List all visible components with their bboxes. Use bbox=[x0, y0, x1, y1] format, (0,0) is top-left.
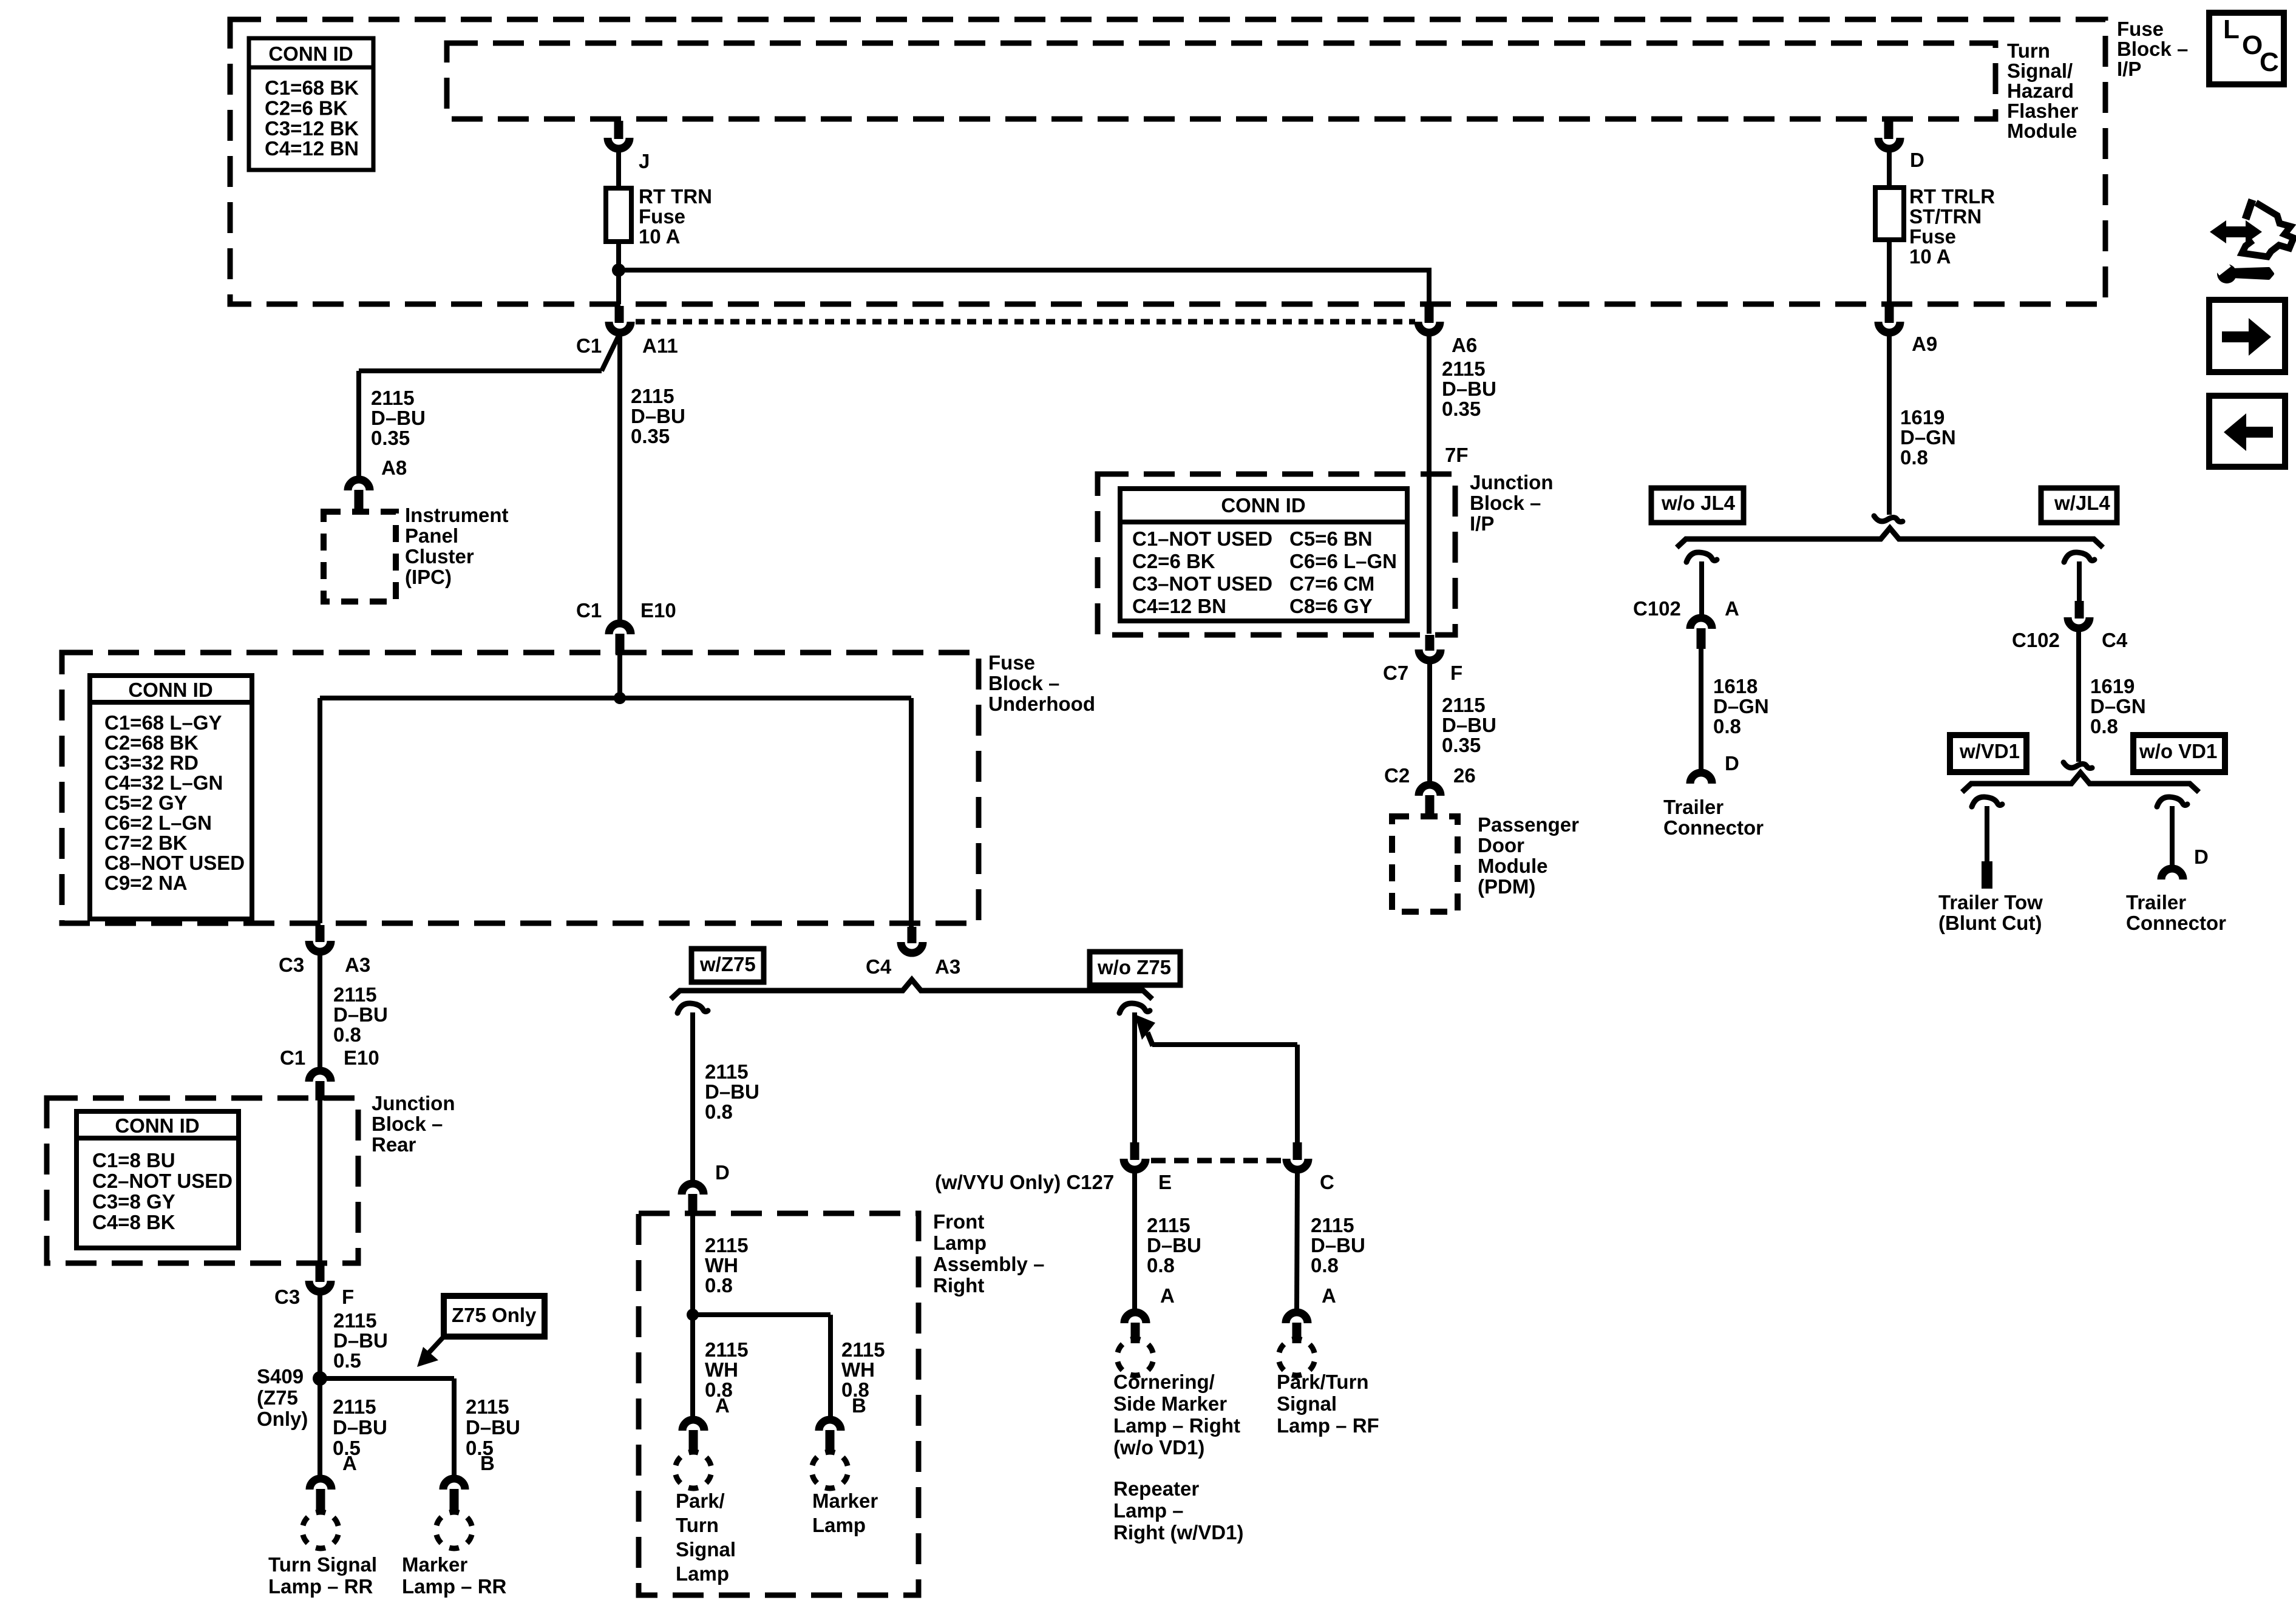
connector C1/E10 at junction block rear bbox=[309, 1071, 331, 1100]
splice S409 bbox=[257, 1365, 327, 1430]
svg-text:B: B bbox=[852, 1394, 866, 1417]
connector A turn signal lamp RR bbox=[310, 1479, 331, 1511]
passenger door module dashed box bbox=[1392, 816, 1458, 912]
svg-text:(Z75: (Z75 bbox=[257, 1386, 298, 1409]
marker lamp bbox=[812, 1452, 878, 1536]
svg-text:Connector: Connector bbox=[2126, 912, 2226, 934]
connector C1/A11 pin bbox=[615, 306, 624, 323]
turn signal/hazard flasher module dashed box bbox=[447, 43, 1995, 119]
svg-text:C4=8 BK: C4=8 BK bbox=[92, 1211, 175, 1233]
w/VD1 branch hook bbox=[1972, 797, 2002, 807]
svg-text:C8=6 GY: C8=6 GY bbox=[1289, 595, 1373, 617]
terminal A8 label bbox=[381, 456, 407, 479]
label Front Lamp Assembly - Right bbox=[933, 1210, 1044, 1297]
terminal D label (trailer connector) bbox=[2194, 846, 2209, 868]
fuse block I/P dashed box bbox=[230, 19, 2105, 304]
svg-text:Door: Door bbox=[1478, 834, 1524, 856]
svg-text:WH: WH bbox=[705, 1358, 738, 1381]
svg-text:Block –: Block – bbox=[372, 1113, 443, 1135]
wire label 2115 D-BU 0.8 (E) bbox=[1147, 1214, 1201, 1276]
connector C7/F pin bbox=[1425, 635, 1435, 651]
svg-text:ST/TRN: ST/TRN bbox=[1909, 205, 1982, 228]
svg-text:C1–NOT USED: C1–NOT USED bbox=[1132, 527, 1272, 550]
svg-text:CONN ID: CONN ID bbox=[1221, 494, 1305, 517]
label Trailer Connector (w/o VD1) bbox=[2126, 891, 2226, 934]
svg-text:D–BU: D–BU bbox=[1311, 1234, 1365, 1256]
wire label 2115 WH 0.8 (B) bbox=[841, 1338, 885, 1401]
connector A9 pin bbox=[1885, 306, 1894, 323]
svg-text:Turn: Turn bbox=[676, 1514, 719, 1536]
svg-text:0.8: 0.8 bbox=[705, 1100, 733, 1123]
CONN ID table (junction block I/P) bbox=[1120, 489, 1407, 621]
wire w/o Z75 to E bbox=[1132, 1012, 1137, 1142]
wire to C102 C4 bbox=[2077, 561, 2082, 601]
svg-text:C3: C3 bbox=[279, 954, 304, 976]
terminal D label (front lamp assembly) bbox=[715, 1161, 730, 1184]
svg-text:0.8: 0.8 bbox=[1900, 446, 1928, 469]
svg-text:A: A bbox=[342, 1452, 357, 1474]
svg-text:Turn Signal: Turn Signal bbox=[268, 1553, 377, 1576]
connector C127 E pin bbox=[1130, 1142, 1140, 1160]
wire label 2115 D-BU 0.8 (C) bbox=[1311, 1214, 1365, 1276]
svg-text:Junction: Junction bbox=[372, 1092, 455, 1114]
svg-text:Assembly –: Assembly – bbox=[933, 1253, 1044, 1275]
svg-text:Module: Module bbox=[2007, 120, 2077, 142]
junction block I/P dashed box bbox=[1098, 474, 1455, 635]
park/turn signal lamp bbox=[675, 1452, 736, 1585]
svg-text:J: J bbox=[639, 150, 650, 172]
svg-text:Fuse: Fuse bbox=[1909, 225, 1956, 248]
w/Z75 option box bbox=[691, 949, 764, 982]
svg-text:WH: WH bbox=[705, 1254, 738, 1276]
connector B marker lamp bbox=[819, 1420, 841, 1452]
wire to C102 A bbox=[1699, 561, 1704, 614]
svg-text:C: C bbox=[1320, 1171, 1334, 1193]
svg-text:Rear: Rear bbox=[372, 1133, 416, 1156]
connector D (flasher) bbox=[1878, 138, 1924, 171]
svg-text:Lamp – RR: Lamp – RR bbox=[402, 1575, 507, 1598]
wire underhood right leg bbox=[909, 698, 914, 927]
wire through junction block rear bbox=[318, 1100, 322, 1263]
wire J to fuse bbox=[616, 149, 621, 188]
svg-text:C102: C102 bbox=[1633, 597, 1681, 620]
svg-text:Signal: Signal bbox=[676, 1538, 736, 1561]
svg-text:D–GN: D–GN bbox=[1713, 695, 1769, 717]
svg-text:Marker: Marker bbox=[812, 1490, 878, 1512]
connector C3/A3 pin bbox=[316, 925, 325, 942]
svg-text:D: D bbox=[715, 1161, 730, 1184]
svg-text:Repeater: Repeater bbox=[1113, 1477, 1199, 1500]
svg-text:Signal/: Signal/ bbox=[2007, 59, 2073, 82]
svg-text:Fuse: Fuse bbox=[639, 205, 685, 228]
svg-text:Lamp – RF: Lamp – RF bbox=[1277, 1414, 1379, 1437]
connector C3/A3 bbox=[279, 941, 370, 976]
svg-text:Right (w/VD1): Right (w/VD1) bbox=[1113, 1521, 1243, 1544]
svg-text:2115: 2115 bbox=[333, 983, 377, 1006]
w/JL4 option box bbox=[2041, 488, 2117, 523]
svg-text:2115: 2115 bbox=[705, 1234, 749, 1256]
svg-text:D–BU: D–BU bbox=[1442, 378, 1496, 400]
svg-text:C3–NOT USED: C3–NOT USED bbox=[1132, 572, 1272, 595]
connector C3/F pin bbox=[316, 1265, 325, 1282]
svg-text:D–BU: D–BU bbox=[631, 405, 685, 427]
svg-text:1619: 1619 bbox=[1900, 406, 1944, 429]
svg-text:D–BU: D–BU bbox=[705, 1080, 759, 1103]
svg-text:w/Z75: w/Z75 bbox=[699, 953, 756, 975]
wire label 2115 D-BU 0.35 (A6) bbox=[1442, 358, 1496, 420]
Z75 Only arrow bbox=[417, 1337, 444, 1367]
connector A8 at IPC bbox=[348, 480, 370, 512]
connector J bbox=[608, 138, 650, 172]
connector B marker lamp RR bbox=[443, 1479, 465, 1511]
svg-text:CONN ID: CONN ID bbox=[115, 1114, 199, 1137]
svg-text:C6=2 L–GN: C6=2 L–GN bbox=[104, 812, 212, 834]
label Trailer Connector (w/o JL4) bbox=[1663, 796, 1764, 839]
w/o JL4 option box bbox=[1651, 488, 1744, 523]
svg-text:D: D bbox=[1910, 149, 1924, 171]
terminal A label bbox=[342, 1452, 357, 1474]
connector D at front lamp assembly bbox=[682, 1184, 704, 1214]
terminal A label (cornering) bbox=[1160, 1284, 1175, 1307]
wire label 1618 D-GN 0.8 bbox=[1713, 675, 1769, 737]
CONN ID table (fuse block I/P) bbox=[249, 38, 373, 170]
instrument panel cluster (IPC) dashed box bbox=[324, 512, 396, 602]
svg-text:Trailer: Trailer bbox=[2126, 891, 2186, 914]
svg-text:0.8: 0.8 bbox=[2090, 715, 2118, 737]
svg-text:1619: 1619 bbox=[2090, 675, 2135, 697]
svg-text:Junction: Junction bbox=[1470, 471, 1554, 493]
connector C2/26 labels bbox=[1384, 764, 1476, 787]
svg-text:Lamp – RR: Lamp – RR bbox=[268, 1575, 373, 1598]
svg-text:Signal: Signal bbox=[1277, 1392, 1337, 1415]
connector C4/A3 bbox=[866, 942, 960, 978]
svg-text:I/P: I/P bbox=[1470, 512, 1494, 535]
dotted partition line (fuse block I/P) bbox=[636, 319, 1415, 325]
svg-text:C2=6 BK: C2=6 BK bbox=[1132, 550, 1215, 572]
wire C3/F to S409 bbox=[318, 1292, 322, 1378]
svg-text:C3=32 RD: C3=32 RD bbox=[104, 751, 199, 774]
svg-text:C2–NOT USED: C2–NOT USED bbox=[92, 1170, 233, 1192]
svg-text:2115: 2115 bbox=[705, 1060, 749, 1083]
svg-text:(PDM): (PDM) bbox=[1478, 875, 1535, 898]
svg-text:C: C bbox=[2260, 47, 2279, 77]
svg-text:Trailer: Trailer bbox=[1663, 796, 1724, 818]
svg-text:A: A bbox=[715, 1394, 730, 1417]
connector C102/C4 pin bbox=[2075, 601, 2084, 619]
svg-text:1618: 1618 bbox=[1713, 675, 1758, 697]
svg-text:Hazard: Hazard bbox=[2007, 80, 2074, 102]
label Fuse Block - I/P bbox=[2117, 18, 2188, 80]
wire label 2115 D-BU 0.5 (A) bbox=[333, 1395, 387, 1459]
option split brace (JL4) bbox=[1677, 528, 2103, 547]
terminal D label (trailer) bbox=[1725, 752, 1739, 775]
svg-text:D–BU: D–BU bbox=[1442, 714, 1496, 736]
svg-text:C5=2 GY: C5=2 GY bbox=[104, 792, 188, 814]
svg-text:w/JL4: w/JL4 bbox=[2054, 492, 2110, 514]
svg-text:C4=12 BN: C4=12 BN bbox=[1132, 595, 1226, 617]
terminal A label (park/turn RF) bbox=[1322, 1284, 1336, 1307]
svg-text:Cornering/: Cornering/ bbox=[1113, 1371, 1215, 1393]
w/o VD1 branch hook bbox=[2157, 797, 2187, 807]
connector C127 C bbox=[1286, 1159, 1334, 1193]
svg-text:L: L bbox=[2223, 15, 2240, 44]
svg-text:Instrument: Instrument bbox=[405, 504, 509, 526]
wire branch to IPC bbox=[359, 333, 620, 477]
connector C1/A11 bbox=[576, 322, 678, 357]
connector D trailer connector (w/o VD1) bbox=[2161, 869, 2183, 880]
label Trailer Tow (Blunt Cut) bbox=[1938, 891, 2043, 934]
svg-text:(w/o VD1): (w/o VD1) bbox=[1113, 1436, 1204, 1459]
svg-text:S409: S409 bbox=[257, 1365, 304, 1388]
connector D pin (flasher) bbox=[1884, 121, 1894, 139]
wire E to cornering lamp bbox=[1132, 1170, 1137, 1309]
svg-text:0.8: 0.8 bbox=[705, 1274, 733, 1297]
svg-text:2115: 2115 bbox=[1442, 358, 1486, 380]
svg-text:(IPC): (IPC) bbox=[405, 566, 452, 588]
junction node below RT TRN fuse bbox=[612, 263, 625, 277]
svg-text:C102: C102 bbox=[2012, 629, 2060, 651]
svg-text:A3: A3 bbox=[345, 954, 370, 976]
svg-text:Cluster: Cluster bbox=[405, 545, 474, 568]
svg-text:2115: 2115 bbox=[841, 1338, 885, 1361]
connector C102/C4 bbox=[2012, 617, 2128, 651]
terminal B label bbox=[480, 1452, 495, 1474]
svg-text:D–GN: D–GN bbox=[1900, 426, 1956, 449]
label Turn Signal/Hazard Flasher Module bbox=[2007, 39, 2079, 142]
svg-text:0.5: 0.5 bbox=[333, 1349, 361, 1372]
connector C1/E10 rear labels bbox=[280, 1046, 379, 1069]
connector A park/turn signal lamp bbox=[682, 1420, 704, 1452]
connector A park/turn RF bbox=[1286, 1312, 1308, 1343]
svg-text:E10: E10 bbox=[344, 1046, 379, 1069]
svg-text:D–GN: D–GN bbox=[2090, 695, 2146, 717]
junction node front lamp bbox=[687, 1309, 699, 1321]
connector C1/E10 labels bbox=[576, 599, 676, 622]
svg-text:Fuse: Fuse bbox=[988, 651, 1035, 674]
service manual icon (arrows and wrench) bbox=[2210, 200, 2294, 283]
terminal E label bbox=[1158, 1171, 1172, 1193]
svg-text:C1=68 BK: C1=68 BK bbox=[265, 76, 359, 99]
wire label 1619 D-GN 0.8 bbox=[1900, 406, 1956, 469]
svg-text:0.35: 0.35 bbox=[631, 425, 670, 447]
svg-text:RT TRLR: RT TRLR bbox=[1909, 185, 1995, 208]
svg-text:Passenger: Passenger bbox=[1478, 813, 1579, 836]
Z75 Only callout box bbox=[444, 1296, 545, 1337]
junction node (underhood) bbox=[614, 692, 626, 704]
svg-text:C1=68 L–GY: C1=68 L–GY bbox=[104, 711, 222, 734]
connector A6 pin bbox=[1425, 306, 1434, 323]
option split brace (Z75) bbox=[671, 980, 1152, 999]
svg-text:F: F bbox=[1450, 662, 1462, 684]
wire branch to C bbox=[1152, 1045, 1297, 1142]
wire C102/C4 to VD1 split bbox=[2076, 629, 2081, 762]
wire to trailer connector D bbox=[2170, 806, 2175, 865]
svg-text:Panel: Panel bbox=[405, 524, 458, 547]
label Instrument Panel Cluster (IPC) bbox=[405, 504, 509, 588]
label Passenger Door Module (PDM) bbox=[1478, 813, 1579, 898]
wire label 2115 WH 0.8 (A) bbox=[705, 1338, 749, 1401]
svg-text:w/o Z75: w/o Z75 bbox=[1097, 956, 1171, 978]
svg-text:w/o JL4: w/o JL4 bbox=[1661, 492, 1736, 514]
svg-text:D–BU: D–BU bbox=[333, 1416, 387, 1439]
svg-text:D: D bbox=[1725, 752, 1739, 775]
svg-text:w/VD1: w/VD1 bbox=[1959, 740, 2020, 762]
wire C1/A11 to C1/E10 bbox=[617, 333, 622, 622]
turn signal lamp RR bbox=[268, 1512, 377, 1598]
LOC page-locator box bbox=[2209, 13, 2284, 84]
wire fuse to A9 bbox=[1887, 240, 1892, 304]
wire label 2115 D-BU 0.35 (PDM) bbox=[1442, 694, 1496, 756]
marker lamp RR bbox=[402, 1512, 507, 1598]
svg-text:CONN ID: CONN ID bbox=[128, 679, 212, 701]
connector C3/F bbox=[274, 1281, 354, 1308]
connector C7/F bbox=[1383, 649, 1462, 684]
wire junction down to C1/A11 bbox=[616, 270, 621, 304]
wire label 2115 D-BU 0.5 (B) bbox=[466, 1395, 520, 1459]
svg-text:Underhood: Underhood bbox=[988, 693, 1095, 715]
svg-text:Park/Turn: Park/Turn bbox=[1277, 1371, 1369, 1393]
svg-text:Side Marker: Side Marker bbox=[1113, 1392, 1227, 1415]
svg-text:0.8: 0.8 bbox=[1147, 1254, 1175, 1276]
front lamp assembly - right dashed box bbox=[639, 1213, 919, 1595]
wire to park/turn signal lamp bbox=[690, 1315, 695, 1416]
svg-text:Lamp: Lamp bbox=[933, 1232, 987, 1254]
w/VD1 option box bbox=[1950, 735, 2026, 772]
wire label 2115 D-BU 0.8 (w/Z75) bbox=[705, 1060, 759, 1123]
svg-text:Fuse: Fuse bbox=[2117, 18, 2164, 40]
svg-text:C4=12 BN: C4=12 BN bbox=[265, 137, 359, 160]
svg-text:Marker: Marker bbox=[402, 1553, 467, 1576]
svg-text:Right: Right bbox=[933, 1274, 984, 1297]
wire underhood bus bbox=[320, 696, 911, 700]
terminal B label (marker) bbox=[852, 1394, 866, 1417]
wire D to lamp junction bbox=[690, 1214, 695, 1312]
svg-text:E: E bbox=[1158, 1171, 1172, 1193]
w/o Z75 branch hook bbox=[1119, 1003, 1150, 1013]
svg-text:A9: A9 bbox=[1912, 333, 1937, 355]
wire end curl (VD1 split) bbox=[2063, 762, 2092, 768]
svg-text:Turn: Turn bbox=[2007, 39, 2050, 62]
svg-text:D–BU: D–BU bbox=[333, 1329, 388, 1352]
svg-text:2115: 2115 bbox=[1147, 1214, 1190, 1236]
dotted link C127 bbox=[1151, 1158, 1281, 1164]
svg-text:Lamp – Right: Lamp – Right bbox=[1113, 1414, 1240, 1437]
svg-text:Block –: Block – bbox=[1470, 492, 1541, 514]
svg-text:Block –: Block – bbox=[2117, 38, 2188, 60]
wire label 2115 D-BU 0.35 (IPC branch) bbox=[371, 387, 426, 449]
wire C to park/turn RF lamp bbox=[1297, 1170, 1297, 1309]
svg-text:0.8: 0.8 bbox=[1713, 715, 1741, 737]
CONN ID table (junction block rear) bbox=[76, 1111, 239, 1248]
wire C7/F to PDM bbox=[1427, 661, 1432, 782]
svg-text:C1: C1 bbox=[576, 334, 602, 357]
svg-text:C8–NOT USED: C8–NOT USED bbox=[104, 852, 245, 874]
connector J pin bbox=[614, 121, 623, 139]
wire label 2115 D-BU 0.5 bbox=[333, 1309, 388, 1372]
wire label 2115 WH 0.8 (feed) bbox=[705, 1234, 749, 1297]
svg-text:Front: Front bbox=[933, 1210, 984, 1233]
svg-text:C4=32 L–GN: C4=32 L–GN bbox=[104, 771, 223, 794]
svg-text:Connector: Connector bbox=[1663, 816, 1764, 839]
svg-text:2115: 2115 bbox=[333, 1395, 376, 1418]
svg-text:Lamp –: Lamp – bbox=[1113, 1499, 1184, 1522]
svg-text:Park/: Park/ bbox=[676, 1490, 725, 1512]
svg-text:A: A bbox=[1322, 1284, 1336, 1307]
svg-text:0.8: 0.8 bbox=[333, 1023, 361, 1046]
park/turn signal lamp RF bbox=[1277, 1339, 1379, 1437]
wire C102 to trailer connector bbox=[1699, 649, 1703, 769]
svg-text:D–BU: D–BU bbox=[371, 407, 426, 429]
terminal A label (park/turn) bbox=[715, 1394, 730, 1417]
w/o Z75 option box bbox=[1090, 952, 1180, 985]
wire to blunt cut bbox=[1985, 806, 1989, 861]
svg-text:A3: A3 bbox=[935, 955, 960, 978]
label Junction Block - I/P bbox=[1470, 471, 1554, 535]
connector C127 C pin bbox=[1293, 1142, 1302, 1160]
svg-text:2115: 2115 bbox=[705, 1338, 749, 1361]
fuse block underhood dashed box bbox=[62, 653, 979, 923]
svg-text:A8: A8 bbox=[381, 456, 407, 479]
svg-text:E10: E10 bbox=[640, 599, 676, 622]
svg-text:10 A: 10 A bbox=[1909, 245, 1951, 268]
svg-text:C3: C3 bbox=[274, 1286, 300, 1308]
w/JL4 branch hook bbox=[2064, 552, 2094, 562]
svg-text:Module: Module bbox=[1478, 855, 1547, 877]
svg-text:Only): Only) bbox=[257, 1408, 308, 1430]
svg-text:B: B bbox=[480, 1452, 495, 1474]
svg-text:C2=68 BK: C2=68 BK bbox=[104, 731, 199, 754]
svg-text:0.8: 0.8 bbox=[1311, 1254, 1339, 1276]
svg-text:F: F bbox=[342, 1286, 354, 1308]
connector C2/26 at PDM bbox=[1419, 785, 1441, 816]
terminal 7F label bbox=[1445, 444, 1469, 466]
wire S409 branch to marker lamp RR bbox=[320, 1378, 454, 1475]
svg-text:0.35: 0.35 bbox=[1442, 734, 1481, 756]
svg-text:C1: C1 bbox=[576, 599, 602, 622]
svg-text:2115: 2115 bbox=[1442, 694, 1486, 716]
svg-text:26: 26 bbox=[1453, 764, 1476, 787]
wire underhood left leg bbox=[318, 698, 322, 923]
svg-text:2115: 2115 bbox=[333, 1309, 377, 1332]
svg-text:C2=6 BK: C2=6 BK bbox=[265, 97, 348, 119]
svg-text:w/o VD1: w/o VD1 bbox=[2139, 740, 2217, 762]
wire w/Z75 branch to D bbox=[690, 1012, 695, 1180]
connector C102/A bbox=[1633, 597, 1739, 649]
connector D trailer connector bbox=[1690, 773, 1712, 784]
svg-text:WH: WH bbox=[841, 1358, 875, 1381]
connector A9 bbox=[1878, 322, 1937, 355]
svg-text:2115: 2115 bbox=[631, 385, 674, 407]
svg-text:D: D bbox=[2194, 846, 2209, 868]
label (w/VYU Only) C127 bbox=[935, 1171, 1114, 1193]
svg-text:A: A bbox=[1160, 1284, 1175, 1307]
w/o JL4 branch hook bbox=[1686, 552, 1717, 562]
svg-text:C7: C7 bbox=[1383, 662, 1408, 684]
svg-text:A11: A11 bbox=[642, 334, 678, 357]
w/o VD1 option box bbox=[2133, 735, 2225, 772]
svg-text:Trailer Tow: Trailer Tow bbox=[1938, 891, 2043, 914]
svg-text:2115: 2115 bbox=[1311, 1214, 1354, 1236]
svg-text:A: A bbox=[1725, 597, 1739, 620]
wire end curl (JL4 split) bbox=[1874, 516, 1903, 522]
svg-text:C1: C1 bbox=[280, 1046, 305, 1069]
svg-text:C4: C4 bbox=[2102, 629, 2128, 651]
svg-text:D–BU: D–BU bbox=[466, 1416, 520, 1439]
svg-text:C9=2 NA: C9=2 NA bbox=[104, 872, 188, 894]
CONN ID table (fuse block underhood) bbox=[90, 676, 252, 919]
svg-text:(w/VYU Only) C127: (w/VYU Only) C127 bbox=[935, 1171, 1114, 1193]
connector A6 bbox=[1418, 322, 1477, 356]
